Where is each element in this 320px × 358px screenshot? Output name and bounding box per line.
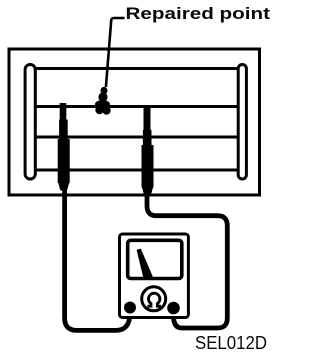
right test probe bbox=[142, 107, 154, 196]
left test probe bbox=[58, 103, 70, 191]
left terminal dot bbox=[124, 302, 136, 314]
meter needle bbox=[137, 249, 154, 278]
ohmmeter display bbox=[128, 240, 182, 278]
leader line to repaired point bbox=[106, 18, 125, 87]
grid line 2 bbox=[35, 105, 239, 108]
left probe wire bbox=[65, 187, 130, 330]
right probe wire bbox=[147, 192, 227, 328]
left bus bar capsule bbox=[25, 65, 35, 180]
right bus bar capsule bbox=[238, 65, 246, 180]
ohmmeter body bbox=[120, 234, 189, 318]
grid line 3 bbox=[35, 136, 239, 139]
outer window frame bbox=[9, 49, 260, 195]
svg-text:SEL012D: SEL012D bbox=[195, 333, 267, 353]
right terminal dot bbox=[167, 302, 180, 315]
grid line 1 bbox=[35, 67, 239, 70]
grid line 4 bbox=[35, 169, 239, 172]
ohm symbol glyph bbox=[147, 293, 161, 306]
repaired point blob bbox=[95, 87, 111, 115]
svg-text:Repaired point: Repaired point bbox=[126, 4, 271, 23]
ohm symbol circle bbox=[142, 287, 166, 311]
